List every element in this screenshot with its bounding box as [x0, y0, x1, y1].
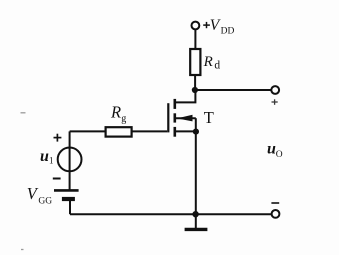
- wire VDD terminal to Rd: [194, 29, 196, 49]
- wire source to bottom node: [195, 132, 197, 215]
- svg-text:R: R: [203, 54, 213, 70]
- wire bottom rail: [70, 213, 272, 215]
- label VGG: [27, 184, 52, 206]
- wire through u1 down to battery: [69, 131, 71, 189]
- wire Rg to gate: [132, 130, 168, 132]
- svg-text:u: u: [40, 148, 49, 165]
- terminal output +: [271, 86, 279, 94]
- resistor Rg: [106, 127, 132, 136]
- transistor T (N-MOSFET): [168, 99, 196, 137]
- label uO: [267, 141, 283, 160]
- wire u1 to Rg: [70, 130, 106, 132]
- label u1: [40, 148, 54, 166]
- node D (junction dot): [192, 87, 198, 93]
- terminal +VDD: [192, 22, 200, 30]
- svg-text:u: u: [267, 141, 276, 158]
- resistor Rd: [190, 49, 200, 75]
- svg-text:g: g: [121, 114, 126, 125]
- scan speckle marks: [21, 113, 26, 250]
- svg-text:T: T: [204, 108, 214, 127]
- battery VGG: [54, 190, 79, 199]
- terminal output −: [272, 210, 280, 218]
- wire node D to output + terminal: [195, 89, 271, 91]
- label Rg: [110, 103, 126, 125]
- node bottom (junction dot): [192, 211, 198, 217]
- label Rd: [203, 54, 221, 72]
- label + (u1 polarity): [54, 134, 62, 142]
- svg-text:O: O: [276, 150, 283, 160]
- node S (junction dot): [193, 129, 199, 135]
- svg-text:R: R: [110, 103, 121, 122]
- svg-text:V: V: [210, 17, 221, 34]
- label − (u1 polarity): [53, 178, 61, 180]
- wire battery to bottom rail: [69, 201, 71, 214]
- svg-text:1: 1: [49, 156, 54, 166]
- svg-text:DD: DD: [221, 26, 235, 36]
- wire drain lead: [176, 90, 196, 102]
- source u1 (circle): [58, 148, 82, 172]
- label +VDD: [203, 17, 234, 36]
- svg-text:d: d: [214, 59, 220, 71]
- label − (output polarity): [271, 202, 279, 204]
- svg-text:GG: GG: [38, 196, 52, 206]
- label + (output polarity): [272, 99, 278, 105]
- wire Rd to node D: [194, 75, 196, 90]
- svg-text:V: V: [27, 184, 39, 203]
- ground: [185, 214, 208, 229]
